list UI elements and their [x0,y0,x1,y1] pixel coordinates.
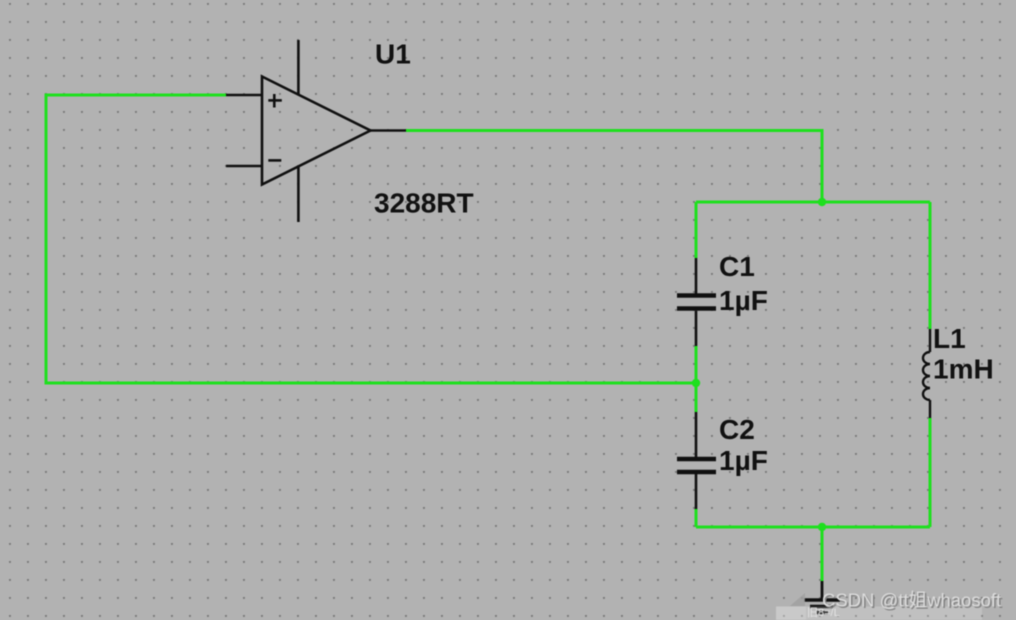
svg-text:U1: U1 [375,39,411,70]
watermark logo wedge [790,593,805,606]
wire left branch lower (C2 to bottom rail) [695,509,698,527]
svg-text:旧8=/L: 旧8=/L [807,606,840,619]
svg-text:1µF: 1µF [719,285,768,316]
svg-text:L1: L1 [933,323,966,354]
wire left branch upper (to C1) [695,202,698,258]
wire left branch middle (C1 to C2) [695,346,698,412]
junction ground node [818,523,826,531]
svg-text:C2: C2 [719,414,755,445]
junction feedback node [692,379,700,387]
op-amp U1 [226,40,406,222]
svg-text:1mH: 1mH [933,354,994,385]
ground [804,581,840,613]
junction top node [818,198,826,206]
wire op-amp output to tank top [406,131,822,203]
svg-text:1µF: 1µF [719,445,768,476]
capacitor C1 [677,258,716,346]
svg-text:3288RT: 3288RT [374,188,474,219]
wire right branch upper (to L1) [929,202,932,329]
wire feedback from node to op-amp + input [46,95,696,383]
svg-text:CSDN @tt姐whaosoft: CSDN @tt姐whaosoft [822,590,1001,611]
watermark backdrop strip [776,607,982,620]
wire tank top rail [696,201,930,204]
wire right branch lower (L1 to bottom rail) [929,418,932,527]
capacitor C2 [677,412,716,509]
wire ground drop [821,527,824,581]
wire tank bottom rail [696,526,930,529]
inductor L1 [923,329,930,418]
svg-text:C1: C1 [719,251,755,282]
